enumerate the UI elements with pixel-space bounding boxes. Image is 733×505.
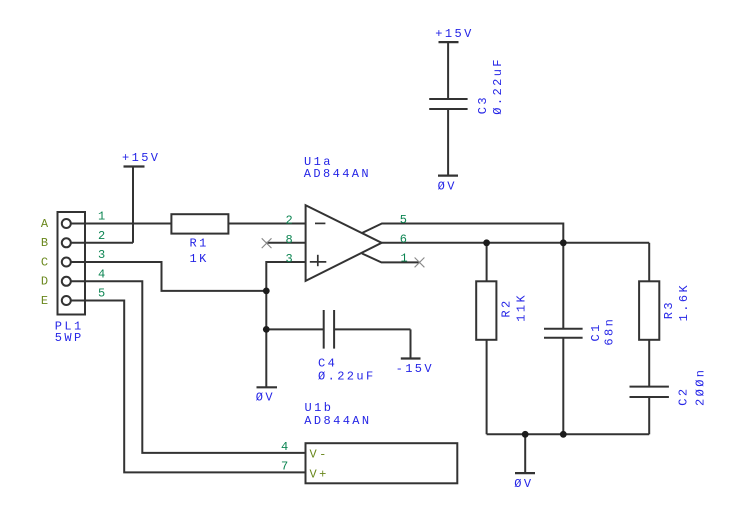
svg-text:V-: V- bbox=[310, 448, 329, 462]
power +15V at C3 bbox=[439, 42, 459, 99]
svg-text:2ØØn: 2ØØn bbox=[693, 368, 707, 406]
op-amp plus symbol bbox=[310, 255, 327, 266]
svg-text:Ø.22uF: Ø.22uF bbox=[491, 57, 505, 115]
power +15V at connector bbox=[124, 167, 145, 243]
power -15V bbox=[401, 329, 421, 358]
no-connect cross pin 1 bbox=[415, 258, 425, 268]
capacitor C3 bbox=[429, 99, 467, 176]
svg-text:1: 1 bbox=[401, 252, 411, 266]
svg-text:+15V: +15V bbox=[435, 27, 473, 41]
wire op-amp pin 8 stub bbox=[267, 242, 306, 244]
svg-text:7: 7 bbox=[281, 459, 291, 473]
junction node ground rail bbox=[522, 431, 529, 438]
svg-text:V+: V+ bbox=[310, 468, 329, 482]
capacitor C4 bbox=[266, 310, 410, 349]
capacitor C1 bbox=[544, 329, 583, 435]
wire op-amp pin 5 output bbox=[362, 224, 563, 243]
svg-text:68n: 68n bbox=[603, 317, 617, 346]
svg-text:C3: C3 bbox=[476, 95, 490, 114]
op-amp U1b body bbox=[306, 443, 458, 483]
wire pin B to +15V bbox=[71, 242, 133, 244]
svg-text:1.6K: 1.6K bbox=[677, 283, 691, 321]
wire R2 top bbox=[486, 243, 488, 281]
svg-text:3: 3 bbox=[286, 252, 296, 266]
svg-text:5WP: 5WP bbox=[55, 331, 84, 345]
svg-text:5: 5 bbox=[400, 213, 410, 227]
svg-text:+15V: +15V bbox=[122, 151, 160, 165]
svg-text:1K: 1K bbox=[190, 252, 209, 266]
wire pin E run to U1b pin 7 bbox=[71, 301, 306, 473]
resistor R3 bbox=[639, 281, 659, 340]
svg-text:C1: C1 bbox=[589, 322, 603, 341]
wire R3 top bbox=[648, 243, 650, 281]
svg-text:4: 4 bbox=[281, 440, 291, 454]
wire R3 to C2 bbox=[648, 340, 650, 387]
svg-text:AD844AN: AD844AN bbox=[304, 414, 371, 428]
svg-text:C2: C2 bbox=[677, 386, 691, 405]
wire pin C run bbox=[71, 262, 267, 291]
svg-text:4: 4 bbox=[98, 267, 108, 281]
resistor R2 bbox=[476, 281, 496, 340]
connector PL1 body bbox=[58, 212, 86, 315]
no-connect cross pin 8 bbox=[262, 238, 272, 248]
ground 0V at rail bbox=[515, 434, 535, 473]
svg-text:C4: C4 bbox=[318, 356, 337, 370]
svg-text:ØV: ØV bbox=[256, 390, 275, 404]
svg-text:ØV: ØV bbox=[514, 477, 533, 491]
ground 0V below C3 bbox=[438, 175, 458, 177]
wire op-amp pin 1 stub bbox=[362, 254, 420, 263]
resistor R1 bbox=[171, 214, 228, 233]
svg-text:6: 6 bbox=[400, 233, 410, 247]
ground 0V below C4 node bbox=[257, 329, 278, 387]
wire pin A to R1 bbox=[71, 223, 172, 225]
svg-text:2: 2 bbox=[286, 214, 296, 228]
svg-text:5: 5 bbox=[98, 287, 108, 301]
junction node R2 top bbox=[483, 239, 490, 246]
svg-text:D: D bbox=[41, 275, 51, 289]
svg-text:C: C bbox=[41, 255, 51, 269]
wire junction to C4 node bbox=[265, 291, 267, 330]
junction node C1 top bbox=[560, 239, 567, 246]
svg-text:AD844AN: AD844AN bbox=[304, 167, 371, 181]
svg-text:R2: R2 bbox=[500, 298, 514, 317]
junction node C4/0V bbox=[263, 326, 270, 333]
svg-text:3: 3 bbox=[98, 248, 108, 262]
svg-text:Ø.22uF: Ø.22uF bbox=[318, 370, 376, 384]
wire riser to op-amp pin 3 bbox=[266, 262, 305, 291]
op-amp U1a triangle bbox=[306, 205, 382, 281]
svg-text:A: A bbox=[41, 217, 51, 231]
svg-text:R1: R1 bbox=[190, 237, 209, 251]
svg-text:8: 8 bbox=[286, 233, 296, 247]
svg-text:E: E bbox=[41, 294, 51, 308]
wire op-amp pin 6 output bbox=[382, 242, 650, 244]
junction node C1 bottom bbox=[560, 431, 567, 438]
capacitor C2 bbox=[630, 387, 669, 435]
svg-text:11K: 11K bbox=[515, 293, 529, 322]
wire R1 to op-amp pin 2 bbox=[228, 223, 305, 225]
svg-text:2: 2 bbox=[98, 229, 108, 243]
svg-text:R3: R3 bbox=[662, 300, 676, 319]
op-amp minus symbol bbox=[315, 222, 325, 224]
svg-text:-15V: -15V bbox=[396, 362, 434, 376]
wire R2 bottom to rail bbox=[486, 340, 488, 435]
wire pin D run to U1b pin 4 bbox=[71, 281, 306, 453]
svg-text:B: B bbox=[41, 236, 51, 250]
junction node op-amp pin3/C bbox=[263, 288, 270, 295]
wire bottom rail bbox=[487, 433, 650, 435]
svg-text:1: 1 bbox=[98, 210, 108, 224]
wire C1 top bbox=[562, 243, 564, 329]
svg-text:U1b: U1b bbox=[305, 401, 334, 415]
svg-text:ØV: ØV bbox=[438, 180, 457, 194]
